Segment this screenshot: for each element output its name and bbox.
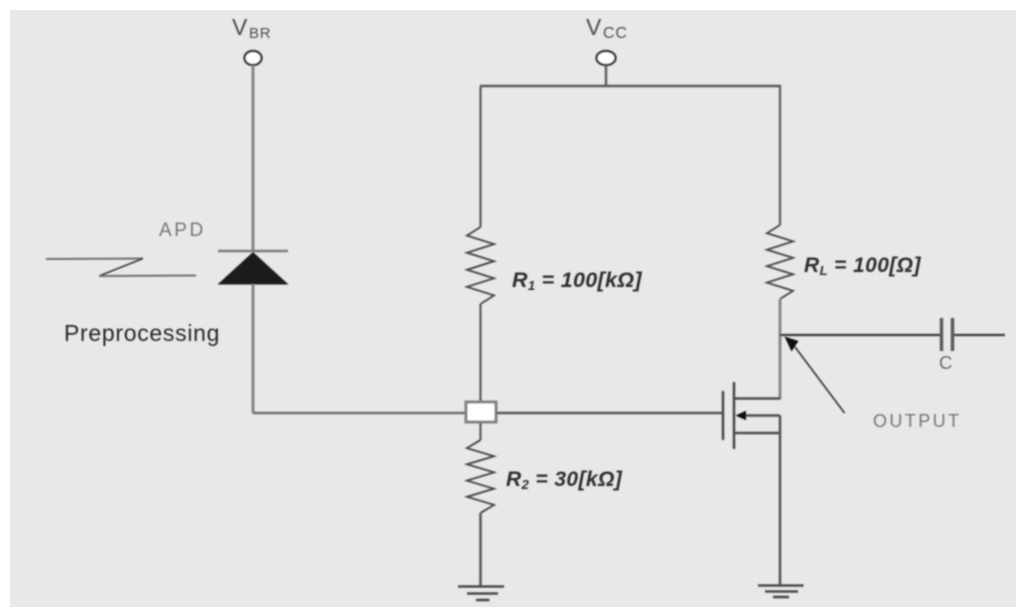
svg-text:C: C xyxy=(939,352,952,373)
wire R2 to ground xyxy=(479,513,482,586)
diode APD cathode bar xyxy=(218,250,288,253)
label VBR xyxy=(232,14,271,42)
wire capacitor out xyxy=(954,334,1005,336)
wire VCC bus xyxy=(480,85,781,88)
label VCC xyxy=(586,14,628,42)
wire VCC stub xyxy=(605,65,607,87)
svg-text:BR: BR xyxy=(249,25,271,42)
wire APD to node box xyxy=(253,412,465,415)
OUTPUT arrow xyxy=(795,347,845,413)
ground (left) xyxy=(458,587,504,601)
resistor R2 xyxy=(467,440,494,513)
svg-text:OUTPUT: OUTPUT xyxy=(873,411,961,431)
transistor Q1 source lead xyxy=(735,432,780,434)
wire APD anode down xyxy=(252,284,255,413)
wire node to gate xyxy=(497,412,723,414)
wire drain to capacitor xyxy=(780,334,940,336)
terminal VCC xyxy=(597,51,616,65)
resistor R1 xyxy=(467,227,494,304)
capacitor C plates xyxy=(940,318,943,351)
terminal VBR xyxy=(245,51,262,65)
wire node to R2 xyxy=(479,423,481,440)
wire RL to drain xyxy=(779,299,782,400)
wire VBR to APD cathode xyxy=(252,65,255,250)
svg-text:CC: CC xyxy=(603,25,628,42)
wire source to ground xyxy=(779,416,781,587)
wire bus to R1 xyxy=(479,86,481,227)
transistor Q1 channel bar xyxy=(733,382,736,449)
ground (right) xyxy=(758,586,804,598)
node box xyxy=(466,402,496,422)
diode APD triangle xyxy=(218,252,289,285)
svg-text:Preprocessing: Preprocessing xyxy=(64,320,220,346)
light arrow (optical input) xyxy=(46,259,196,277)
transistor Q1 drain lead xyxy=(735,397,780,399)
svg-text:V: V xyxy=(232,14,248,40)
wire R1 to node xyxy=(479,304,481,402)
svg-text:APD: APD xyxy=(159,220,206,241)
resistor RL xyxy=(767,225,793,299)
svg-text:V: V xyxy=(586,14,602,40)
wire bus to RL xyxy=(779,86,781,225)
transistor Q1 (MOSFET) gate bar xyxy=(722,391,725,440)
transistor Q1 body arrow xyxy=(736,411,747,420)
